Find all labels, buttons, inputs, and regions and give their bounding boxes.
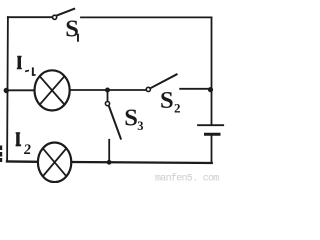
svg-text:S: S [124,105,138,132]
svg-text:2: 2 [23,142,32,158]
svg-text:3: 3 [137,119,143,133]
svg-text:2: 2 [174,101,181,116]
svg-text:manfen5. com: manfen5. com [155,173,219,184]
svg-text:S: S [65,16,79,43]
svg-text:S: S [160,87,174,114]
